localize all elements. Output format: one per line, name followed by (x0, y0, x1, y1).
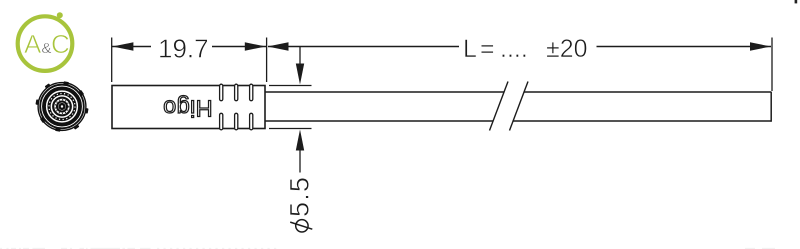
front view outer thin ring (38, 83, 86, 131)
dimension L arrows (268, 42, 289, 50)
corner tick top right (795, 0, 798, 3)
front view mid ring (53, 98, 71, 116)
cable bottom edge (265, 120, 772, 122)
dimension 19.7 arrows (112, 42, 133, 50)
front view thin white ring inside thick (42, 86, 83, 127)
svg-text:Higo: Higo (163, 95, 213, 121)
svg-text:±20: ±20 (546, 35, 588, 63)
dimension 19.7 line (112, 46, 266, 48)
extension line mid (266, 38, 268, 83)
diameter symbol (290, 220, 312, 232)
connector front view (20, 64, 105, 149)
diameter extension dash top (269, 85, 312, 87)
dimension L line (268, 46, 771, 48)
extension line left (111, 38, 113, 83)
body grooves bottom (220, 113, 253, 130)
svg-text:=: = (480, 35, 495, 63)
diameter top arrow (299, 47, 301, 67)
connector body (112, 86, 265, 129)
body grooves top (220, 84, 253, 101)
cable top edge (265, 91, 772, 93)
logo A&C text (24, 29, 70, 59)
front view inner dotted ring (55, 100, 69, 114)
cable break slashes (490, 82, 509, 131)
svg-text:A: A (24, 29, 42, 59)
front view knurled ring (49, 94, 75, 120)
front view inner ring (57, 102, 67, 112)
faint cropped text at bottom (0, 247, 775, 249)
svg-text:C: C (51, 29, 70, 59)
svg-text:5.5: 5.5 (285, 176, 315, 217)
front view center dot (60, 104, 65, 109)
diameter extension dash bottom (269, 128, 312, 130)
svg-text:&: & (42, 40, 52, 57)
diameter bottom arrow (299, 148, 301, 173)
cable end (771, 38, 773, 92)
svg-text:19.7: 19.7 (158, 33, 209, 63)
svg-text:....: .... (500, 35, 528, 63)
logo A&C circle (18, 12, 73, 71)
front view outer tabs (20, 64, 105, 149)
front view thick ring (43, 87, 82, 126)
svg-text:L: L (463, 35, 477, 63)
